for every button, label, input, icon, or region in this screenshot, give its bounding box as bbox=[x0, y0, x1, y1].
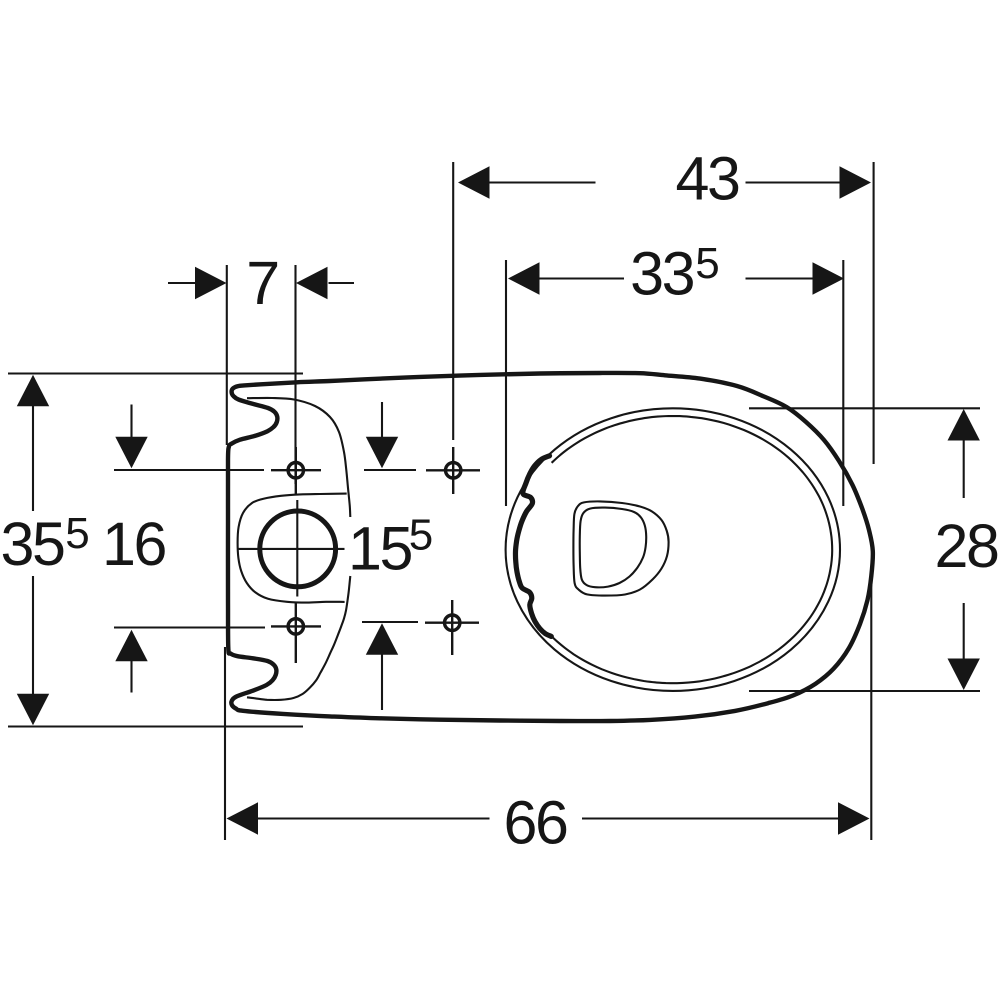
svg-text:5: 5 bbox=[409, 511, 433, 560]
dim 28 arrow down bbox=[948, 659, 980, 691]
dim 28 line bottom segment bbox=[963, 603, 965, 661]
dim 43 line right segment bbox=[746, 181, 842, 183]
svg-text:28: 28 bbox=[934, 512, 998, 580]
svg-text:33: 33 bbox=[630, 240, 694, 308]
dim 35.5 line upper segment bbox=[32, 403, 34, 511]
dim 35.5 arrow down bbox=[17, 694, 49, 726]
dim 15.5 arrow up bbox=[366, 623, 398, 655]
dim 35.5 reference line bottom bbox=[8, 725, 303, 727]
svg-text:5: 5 bbox=[65, 509, 89, 558]
flush rim thick arc (left portion of inner ring, with jogs) bbox=[515, 456, 551, 637]
svg-text:66: 66 bbox=[503, 789, 567, 857]
dim 28 reference line top bbox=[749, 407, 980, 409]
toilet body outer outline bbox=[228, 373, 873, 721]
dim 35.5 line lower segment bbox=[32, 576, 34, 697]
inner ceramic edge upper curve bbox=[247, 398, 350, 517]
dim 33.5 line right segment bbox=[746, 277, 816, 279]
dim 16 reference line bottom bbox=[114, 626, 265, 628]
dim 43 arrow right bbox=[840, 166, 872, 198]
dim 7 extension line left bbox=[226, 265, 228, 445]
fixing hole top-right bbox=[446, 463, 461, 478]
dim 33.5 arrow right bbox=[813, 262, 845, 294]
dim 66 extension line right bbox=[870, 576, 872, 840]
dim 28 arrow up bbox=[948, 409, 980, 441]
dim 7 tail right bbox=[329, 282, 355, 284]
dim 7 tail left bbox=[168, 282, 198, 284]
dim 28 line top segment bbox=[963, 438, 965, 498]
dim 33.5 extension line left bbox=[505, 260, 507, 506]
svg-text:5: 5 bbox=[695, 239, 719, 288]
dim 15.5 reference line top bbox=[364, 469, 416, 471]
drain hole centerline horizontal bbox=[238, 548, 344, 550]
seat rim inner oval thin arc (right portion) bbox=[552, 416, 833, 683]
dim 66 line left segment bbox=[256, 817, 490, 819]
dim 7 arrow right bbox=[296, 267, 328, 299]
dim 16 arrow up tail bbox=[130, 658, 132, 693]
seat rim outer oval bbox=[506, 408, 840, 691]
dim 16 arrow up bbox=[115, 630, 147, 662]
dim 7 arrow left bbox=[195, 267, 227, 299]
svg-text:16: 16 bbox=[102, 510, 166, 578]
dim 7 extension line right (hole centerline) bbox=[294, 265, 296, 484]
dim 16 arrow down tail bbox=[130, 405, 132, 441]
dim 43 extension line right bbox=[873, 162, 875, 464]
dim 28 reference line bottom bbox=[749, 690, 980, 692]
dim 33.5 line left segment bbox=[537, 277, 624, 279]
dim 43 arrow left bbox=[458, 166, 490, 198]
dim 66 line right segment bbox=[582, 817, 840, 819]
water surface outer outline bbox=[573, 501, 668, 595]
dim 15.5 arrow down tail bbox=[381, 402, 383, 440]
dim 15.5 arrow up tail bbox=[381, 652, 383, 710]
svg-text:15: 15 bbox=[348, 515, 412, 583]
drain hole circle bbox=[260, 511, 336, 587]
water surface inner outline bbox=[580, 508, 647, 588]
dim 16 arrow down bbox=[115, 437, 147, 469]
fixing hole bottom-right bbox=[445, 615, 460, 630]
svg-text:7: 7 bbox=[246, 249, 278, 317]
dim 35.5 reference line top bbox=[8, 372, 303, 374]
svg-text:43: 43 bbox=[675, 145, 739, 213]
fixing hole top-left bbox=[288, 463, 303, 478]
dim 33.5 extension line right bbox=[842, 260, 844, 506]
dim 43 line left segment bbox=[487, 181, 596, 183]
dim 66 arrow right bbox=[838, 802, 870, 834]
dim 66 extension line left bbox=[224, 647, 226, 840]
fixing hole bottom-left bbox=[288, 619, 303, 634]
drain hole centerline vertical bbox=[296, 500, 298, 597]
dim 15.5 arrow down bbox=[366, 437, 398, 469]
dim 16 reference line top bbox=[114, 469, 264, 471]
dim 66 arrow left bbox=[227, 802, 259, 834]
inner ceramic edge lower curve bbox=[247, 576, 350, 700]
dim 33.5 arrow left bbox=[508, 262, 540, 294]
dim 43 extension line left bbox=[452, 162, 454, 440]
svg-text:35: 35 bbox=[0, 510, 64, 578]
dim 35.5 arrow up bbox=[17, 375, 49, 407]
drain boss outline bbox=[238, 494, 347, 603]
dim 15.5 reference line bottom bbox=[362, 621, 418, 623]
